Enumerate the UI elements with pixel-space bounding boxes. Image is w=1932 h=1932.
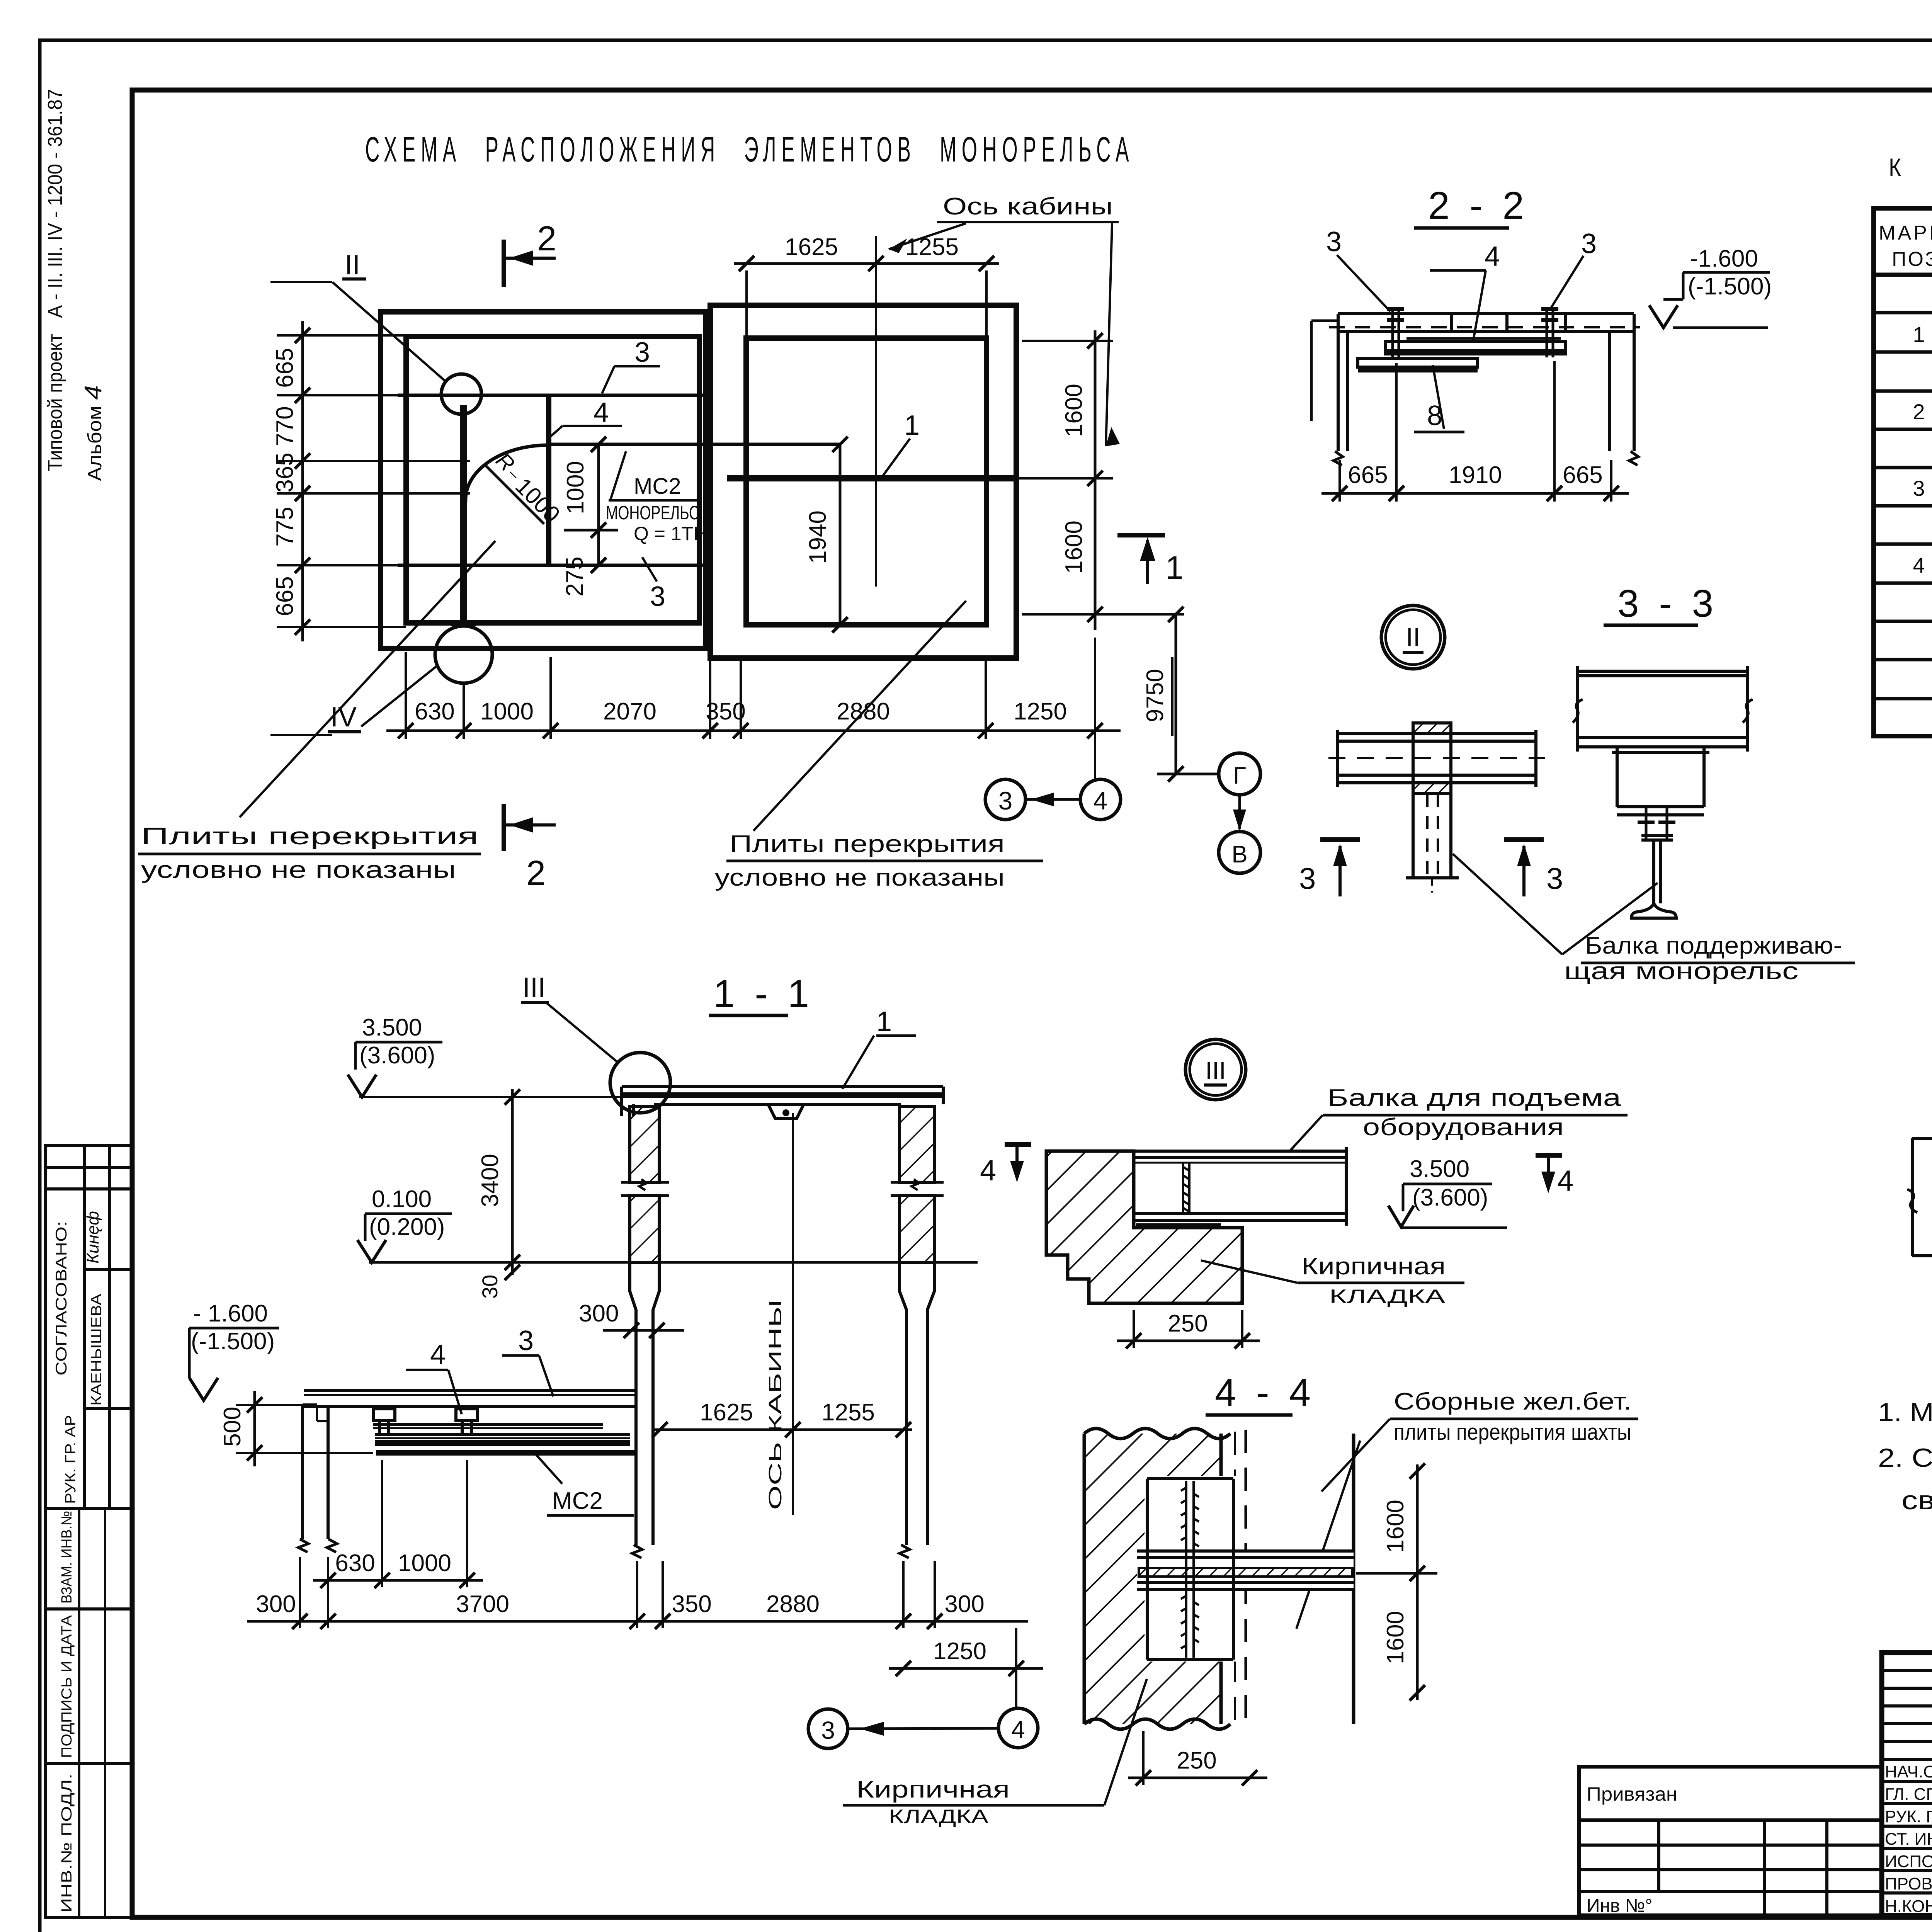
1-1 right column hatched — [891, 1107, 944, 1262]
svg-text:сварные швы принять hш =: сварные швы принять hш = 6 мм. — [1901, 1486, 1932, 1515]
1-1 axis circles 3 and 4 — [808, 1709, 848, 1748]
svg-text:ВЗАМ. ИНВ.№: ВЗАМ. ИНВ.№ — [59, 1511, 75, 1604]
svg-text:III: III — [522, 972, 546, 1003]
svg-text:ГЛ. СПЕЦ: ГЛ. СПЕЦ — [1885, 1785, 1932, 1804]
4-4: connection plates — [1147, 1479, 1233, 1660]
svg-text:3: 3 — [1581, 228, 1597, 259]
plan: right slab note leader — [753, 601, 966, 831]
svg-text:ОСЬ КАБИНЫ: ОСЬ КАБИНЫ — [765, 1299, 785, 1510]
1-1 top slab — [622, 1087, 943, 1116]
svg-text:РУК. ГР. АР: РУК. ГР. АР — [63, 1415, 79, 1504]
svg-text:250: 250 — [1168, 1310, 1207, 1337]
svg-text:1000: 1000 — [562, 461, 589, 514]
title block names grid — [1882, 1653, 1932, 1915]
plan: interior extension line b — [277, 492, 470, 495]
svg-text:1: 1 — [1165, 549, 1184, 586]
svg-text:Типовой проект А - II. III.: Типовой проект А - II. III. IV - 1200 - … — [44, 89, 66, 471]
svg-text:1600: 1600 — [1382, 1500, 1409, 1553]
svg-text:30: 30 — [478, 1275, 502, 1299]
3-3: hanger box — [1612, 747, 1709, 815]
svg-text:2070: 2070 — [603, 698, 656, 725]
svg-text:770: 770 — [272, 406, 298, 446]
svg-text:ПОЗ.: ПОЗ. — [1892, 248, 1932, 270]
plan: monorail horizontal path — [551, 443, 840, 446]
plan: extension y1463 — [277, 564, 398, 566]
svg-text:275: 275 — [561, 556, 588, 596]
svg-text:СТ. ИНЖ.: СТ. ИНЖ. — [1885, 1830, 1932, 1849]
svg-text:II: II — [345, 250, 360, 281]
plan: axis circles Г and В — [1219, 753, 1260, 795]
svg-text:4: 4 — [980, 1154, 996, 1187]
3-3: slab band — [1577, 666, 1747, 752]
svg-text:2 - 2: 2 - 2 — [1428, 184, 1529, 227]
plan: monorail poz.2 vertical — [460, 405, 467, 627]
svg-text:3: 3 — [1326, 226, 1342, 257]
title block names — [1885, 1762, 1932, 1916]
svg-text:4: 4 — [1094, 786, 1108, 815]
1-1 dim 500 — [253, 1391, 256, 1466]
svg-text:3400: 3400 — [477, 1154, 503, 1207]
plan: left room outer wall — [381, 312, 706, 648]
plan: top dim 1625 1255 — [734, 262, 999, 265]
svg-text:3: 3 — [998, 786, 1013, 815]
plan: 1000 vertical dim — [597, 444, 600, 565]
svg-text:Кирпичная: Кирпичная — [1301, 1253, 1446, 1280]
2-2 left hook line — [1311, 321, 1338, 421]
plan: section mark 2 top — [502, 240, 506, 287]
detail III circle marker — [1185, 1039, 1246, 1100]
II detail: section mark 3 left — [1320, 837, 1360, 842]
2-2 bolts — [1387, 309, 1558, 359]
svg-text:Балка поддерживаю-: Балка поддерживаю- — [1585, 932, 1842, 959]
svg-text:К СХЕМЕ РАСПОЛОЖЕНИЯ ЭЛЕМЕН: К СХЕМЕ РАСПОЛОЖЕНИЯ ЭЛЕМЕНТОВ МОНОРЕЛЬС… — [1889, 153, 1932, 182]
svg-text:ПОДПИСЬ И ДАТА: ПОДПИСЬ И ДАТА — [59, 1615, 75, 1758]
plan: radius callout line — [484, 464, 544, 524]
plan: bottom dim chain — [386, 730, 1121, 732]
plan: interior extension line a — [277, 460, 470, 462]
4-4: hatched wall block — [1084, 1434, 1221, 1724]
svg-text:3.500: 3.500 — [362, 1014, 422, 1041]
svg-text:условно не показаны: условно не показаны — [715, 864, 1005, 891]
svg-text:КЛАДКА: КЛАДКА — [1329, 1286, 1446, 1307]
plan: axis circles 3 and 4 — [985, 779, 1026, 820]
plan: extension y1623 — [277, 626, 406, 628]
svg-text:350: 350 — [672, 1591, 711, 1617]
svg-text:условно не показаны: условно не показаны — [141, 857, 456, 883]
1-1 MC2 bolts — [373, 1409, 478, 1434]
1-1 main dim chain — [247, 1620, 1028, 1623]
svg-text:1000: 1000 — [480, 698, 534, 725]
svg-text:Кирпичная: Кирпичная — [856, 1776, 1010, 1803]
2-2 left column — [1333, 314, 1347, 465]
II detail: joint plates with welds — [1413, 723, 1451, 794]
svg-text:4: 4 — [1913, 553, 1925, 577]
svg-text:СХЕМА РАСПОЛОЖЕНИЯ ЭЛЕМЕНТОВ: СХЕМА РАСПОЛОЖЕНИЯ ЭЛЕМЕНТОВ МОНОРЕЛЬСА — [365, 130, 1134, 169]
svg-text:3: 3 — [650, 581, 665, 612]
2-2 upper beam MC — [1386, 338, 1565, 354]
svg-text:1940: 1940 — [804, 510, 831, 564]
svg-text:МАРКА: МАРКА — [1879, 222, 1932, 244]
svg-text:3: 3 — [1299, 861, 1316, 895]
svg-text:2. Сварку производить элек: 2. Сварку производить электродами Э-42Ап… — [1878, 1443, 1932, 1473]
svg-text:Альбом 4: Альбом 4 — [80, 385, 107, 481]
svg-text:(-1.500): (-1.500) — [1688, 273, 1772, 300]
svg-text:Н.КОНТР: Н.КОНТР — [1885, 1897, 1932, 1916]
4-4: dims 1600 1600 — [1416, 1464, 1419, 1700]
svg-text:1625: 1625 — [785, 234, 838, 260]
svg-text:3 - 3: 3 - 3 — [1617, 582, 1718, 625]
svg-text:Инв №°: Инв №° — [1587, 1896, 1653, 1916]
svg-text:4 - 4: 4 - 4 — [1215, 1371, 1315, 1414]
4-4: dim 250 — [1142, 1731, 1145, 1785]
svg-text:4: 4 — [430, 1339, 446, 1370]
plan: leader poz.1 — [881, 439, 910, 478]
svg-text:500: 500 — [219, 1406, 246, 1446]
III: beam band — [1134, 1147, 1346, 1226]
svg-text:1 - 1: 1 - 1 — [713, 972, 814, 1015]
1-1 slab hanger center — [768, 1104, 804, 1118]
svg-text:300: 300 — [944, 1591, 984, 1617]
4-4: white underlay for beam and plates — [1137, 1551, 1354, 1591]
IV: platform box — [1907, 1138, 1932, 1256]
svg-text:(3.600): (3.600) — [359, 1042, 435, 1069]
svg-text:665: 665 — [1348, 462, 1388, 488]
svg-text:665: 665 — [272, 348, 298, 388]
svg-text:КАЕНЫШЕВА: КАЕНЫШЕВА — [88, 1293, 105, 1406]
svg-text:Сборные жел.бет.: Сборные жел.бет. — [1394, 1388, 1631, 1415]
plan: right dim 1600 1600 — [1094, 330, 1097, 630]
1-1 left retaining wall — [298, 1405, 337, 1552]
svg-text:Плиты перекрытия: Плиты перекрытия — [730, 831, 1005, 857]
plan: extension y1023 — [277, 394, 398, 396]
II detail: beam band — [1337, 730, 1536, 787]
svg-text:2: 2 — [537, 219, 556, 258]
svg-text:1250: 1250 — [933, 1638, 986, 1665]
2-2 right column — [1610, 314, 1638, 465]
3-3: bolts — [1638, 807, 1675, 838]
detail III circle on 1-1 — [610, 1053, 670, 1113]
svg-text:3: 3 — [1546, 861, 1563, 895]
plan: chain extension lines — [406, 638, 1095, 782]
III: bearing plate — [1136, 1223, 1221, 1228]
svg-text:630: 630 — [335, 1550, 375, 1577]
3-3: leader to text — [1453, 854, 1562, 954]
svg-text:щая монорельс: щая монорельс — [1564, 958, 1798, 985]
plan: monorail curve R=1000 — [466, 445, 548, 502]
svg-text:4: 4 — [1557, 1165, 1573, 1197]
svg-text:4: 4 — [1011, 1716, 1025, 1743]
svg-text:3: 3 — [1913, 476, 1925, 500]
svg-text:Q = 1ТН: Q = 1ТН — [634, 523, 707, 544]
3-3: monorail I-beam — [1631, 835, 1676, 918]
svg-text:оборудования: оборудования — [1363, 1114, 1564, 1141]
svg-text:(3.600): (3.600) — [1412, 1184, 1488, 1211]
svg-text:-1.600: -1.600 — [1690, 245, 1758, 272]
svg-text:III: III — [1205, 1056, 1226, 1084]
svg-text:4: 4 — [594, 397, 609, 428]
svg-text:300: 300 — [256, 1591, 296, 1617]
svg-text:Г: Г — [1233, 762, 1246, 789]
2-2 dims 665 1910 665 — [1321, 492, 1629, 495]
plan: 9750 dim — [1175, 614, 1177, 774]
svg-text:665: 665 — [272, 576, 298, 616]
svg-text:1600: 1600 — [1382, 1611, 1409, 1664]
svg-text:(0.200): (0.200) — [369, 1214, 445, 1240]
svg-text:ИНВ.№ ПОДЛ.: ИНВ.№ ПОДЛ. — [59, 1774, 75, 1913]
1-1 dim 630 1000 — [313, 1579, 483, 1582]
svg-text:365: 365 — [272, 452, 298, 492]
1-1 dim 3400 — [511, 1089, 514, 1275]
svg-text:4: 4 — [1485, 241, 1500, 272]
III: stepped brick wall — [1046, 1151, 1242, 1303]
svg-text:НАЧ.ОТД: НАЧ.ОТД — [1885, 1762, 1932, 1781]
plan: left dim chain line — [301, 321, 304, 641]
plan: 275 dim — [591, 558, 606, 573]
svg-text:665: 665 — [1563, 462, 1602, 488]
1-1 left column hatched — [621, 1107, 669, 1262]
title block outer — [1882, 1653, 1932, 1915]
plan: 1940 vertical dim — [839, 444, 842, 625]
plan: left room inner wall — [406, 337, 699, 623]
2-2 slab — [1338, 314, 1634, 332]
svg-text:250: 250 — [1177, 1747, 1216, 1774]
privyazan box — [1579, 1767, 1882, 1915]
svg-text:ПРОВЕРИЛ: ПРОВЕРИЛ — [1885, 1874, 1932, 1893]
1-1 dim 1625 1255 — [653, 1429, 912, 1431]
svg-text:Плиты перекрытия: Плиты перекрытия — [141, 823, 478, 850]
svg-text:2: 2 — [526, 854, 546, 893]
plan: right room inner wall — [746, 338, 986, 625]
plan: joint marks between rooms — [705, 415, 711, 622]
svg-text:В: В — [1231, 841, 1247, 868]
svg-text:3.500: 3.500 — [1410, 1156, 1469, 1182]
4-4: weld seam center — [1181, 1481, 1199, 1658]
1-1 MC2 plates — [373, 1424, 636, 1453]
svg-text:3: 3 — [518, 1325, 534, 1356]
svg-text:1255: 1255 — [905, 234, 959, 260]
svg-text:МС2: МС2 — [634, 474, 681, 499]
plan: leader poz.4 — [563, 425, 622, 427]
plan: cab axis vertical line — [875, 236, 877, 587]
svg-text:Балка для подъема: Балка для подъема — [1327, 1085, 1621, 1111]
svg-text:1625: 1625 — [700, 1399, 753, 1426]
specification table grid — [1874, 208, 1932, 736]
plan: extension y868 — [277, 334, 406, 337]
svg-text:9750: 9750 — [1142, 669, 1168, 722]
svg-text:Привязан: Привязан — [1587, 1783, 1677, 1805]
svg-text:плиты перекрытия шахты: плиты перекрытия шахты — [1394, 1420, 1631, 1445]
III: dim 250 — [1133, 1310, 1135, 1348]
svg-text:РУК. ГР.: РУК. ГР. — [1885, 1807, 1932, 1826]
plan: section mark 2 bottom — [502, 804, 506, 851]
svg-text:II: II — [1406, 622, 1420, 652]
specification header text — [1879, 222, 1932, 270]
svg-text:1: 1 — [1913, 322, 1925, 347]
plan: circle II marker — [441, 374, 481, 414]
left stamp table grid — [46, 1146, 132, 1918]
II detail: section mark 3 right — [1504, 837, 1544, 842]
specification rows — [1913, 283, 1932, 577]
1-1 lower platform beam poz.3 — [304, 1390, 638, 1406]
plan: leader poz.3 top — [614, 365, 660, 367]
svg-text:2: 2 — [1913, 400, 1925, 424]
plan: right room outer wall — [710, 305, 1016, 658]
svg-text:3: 3 — [821, 1716, 835, 1744]
svg-text:МОНОРЕЛЬС: МОНОРЕЛЬС — [606, 502, 699, 524]
svg-text:1255: 1255 — [821, 1399, 875, 1426]
svg-text:1250: 1250 — [1014, 698, 1067, 725]
plan: beam poz.3 bottom — [398, 564, 704, 567]
4-4: beam crossing — [1137, 1551, 1354, 1590]
plan: left dim labels — [272, 348, 298, 616]
III: weld joint — [1183, 1163, 1189, 1213]
svg-text:1600: 1600 — [1061, 520, 1087, 574]
2-2 lower beam MC — [1358, 359, 1478, 369]
plan: monorail end plate — [451, 623, 476, 626]
svg-text:(-1.500): (-1.500) — [191, 1328, 275, 1355]
svg-text:630: 630 — [415, 698, 454, 725]
svg-text:МС2: МС2 — [552, 1488, 603, 1514]
II detail: column below — [1406, 794, 1459, 893]
svg-text:ИСПОЛН.: ИСПОЛН. — [1885, 1852, 1932, 1871]
svg-text:775: 775 — [272, 507, 298, 546]
svg-text:- 1.600: - 1.600 — [193, 1300, 268, 1327]
svg-text:0.100: 0.100 — [372, 1186, 432, 1213]
svg-text:СОГЛАСОВАНО:: СОГЛАСОВАНО: — [53, 1221, 70, 1376]
svg-text:Кинęф: Кинęф — [83, 1211, 102, 1264]
plan: beam poz.4 (MC2) vertical — [546, 396, 551, 565]
1-1 floor level line — [369, 1261, 978, 1264]
svg-text:1. Монтажные болты принят: 1. Монтажные болты принять М 12 — [1878, 1398, 1932, 1427]
svg-text:300: 300 — [579, 1300, 619, 1327]
svg-text:1000: 1000 — [398, 1550, 451, 1577]
1-1 cab axis — [792, 1113, 794, 1515]
svg-text:1910: 1910 — [1449, 462, 1502, 488]
1-1 walls below floor — [630, 1262, 934, 1558]
plan: beam poz.3 top — [398, 394, 704, 397]
svg-text:1: 1 — [904, 410, 920, 441]
plan: poz.1 monorail beam in right room — [727, 475, 1014, 481]
3-3: slab break marks — [1573, 699, 1583, 723]
svg-text:3: 3 — [634, 337, 650, 368]
svg-text:Ось кабины: Ось кабины — [943, 193, 1113, 220]
svg-text:1: 1 — [876, 1006, 892, 1037]
plan: leader poz.3 bottom — [642, 557, 657, 582]
svg-text:1600: 1600 — [1061, 384, 1087, 437]
svg-text:КЛАДКА: КЛАДКА — [889, 1806, 989, 1827]
svg-text:3700: 3700 — [456, 1591, 509, 1617]
plan: section mark 1 right — [1117, 533, 1165, 537]
plan: left slab note leader — [240, 541, 495, 817]
1-1 dim 1250 — [889, 1667, 1043, 1670]
plan: circle IV marker — [435, 626, 492, 683]
svg-text:2880: 2880 — [766, 1591, 820, 1617]
detail II circle — [1381, 605, 1445, 669]
